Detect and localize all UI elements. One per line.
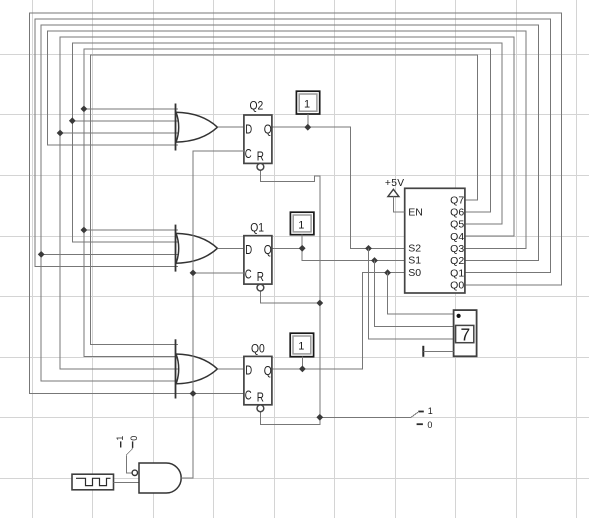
svg-text:D: D — [245, 364, 252, 378]
wire net Y4 feedback (decoder Q4 to OR gates) — [60, 37, 514, 369]
flip-flop Q0 — [244, 356, 272, 411]
wire CLK to AND gate input 2 — [114, 482, 140, 484]
OR gate G1 (4-input, drives Q1.D) — [176, 225, 218, 272]
wire reset chain from FF bubbles to switch S2btn — [260, 170, 411, 424]
junction P2/Q2.Q — [304, 124, 311, 131]
svg-text:Q0: Q0 — [450, 279, 464, 291]
wire net Y3 feedback (decoder Q3 to OR-G2 input 4) — [48, 31, 527, 249]
wire S1 branch to display input 3 — [375, 261, 454, 327]
junction reset/Q0 bubble — [316, 414, 323, 421]
wire net Y6 feedback (decoder Q6 to OR gates) — [84, 49, 490, 357]
junction S1/display branch — [371, 257, 378, 264]
junction clock/Q1.C — [190, 270, 197, 277]
svg-text:7: 7 — [461, 324, 471, 344]
svg-text:R: R — [257, 149, 264, 163]
junction Y5/G2 — [69, 117, 76, 124]
svg-text:+5V: +5V — [385, 178, 405, 189]
svg-text:EN: EN — [408, 206, 423, 218]
svg-text:Q5: Q5 — [450, 219, 464, 231]
wire net Y0 feedback (decoder Q0 to OR-G0 input 5 and FF Q0 clock row) — [30, 13, 562, 394]
wire net Y1 feedback (decoder Q1 to OR-G1 input 4) — [35, 19, 550, 273]
wire net Y2 feedback (decoder Q2 to OR gates) — [41, 25, 538, 381]
svg-text:Q0: Q0 — [251, 341, 265, 355]
wire net Y5 feedback (decoder Q5 to OR gates) — [72, 43, 502, 242]
wire G2 output to Q2.D — [217, 126, 244, 128]
svg-text:1: 1 — [428, 406, 433, 416]
power +5V supply — [385, 178, 405, 212]
wire Q1.Q to probe and S1 — [272, 248, 405, 260]
wire G1 output to Q1.D — [217, 247, 244, 249]
clock generator CLK — [72, 474, 114, 490]
switch S1btn (1/0, rotated) — [115, 436, 139, 473]
svg-text:1: 1 — [115, 436, 125, 441]
wire P0 to Q0.Q — [301, 357, 303, 369]
OR gate G0 (5-input, drives Q0.D) — [176, 339, 218, 398]
junction S0/display branch — [384, 269, 391, 276]
wire P2 to Q2.Q — [307, 114, 309, 127]
wire G0 output to Q0.D — [217, 368, 244, 370]
junction P1/Q1.Q — [299, 245, 306, 252]
junction S2/display branch — [365, 245, 372, 252]
svg-text:C: C — [245, 147, 252, 161]
probe P1 (value 1) — [290, 212, 314, 235]
svg-text:S0: S0 — [408, 267, 421, 279]
junction clock/Q0.C — [190, 390, 197, 397]
wire S2 branch to display input 2 — [369, 248, 454, 338]
svg-text:R: R — [257, 391, 264, 405]
svg-text:S2: S2 — [408, 243, 421, 255]
probe P2 (value 1) — [296, 91, 319, 114]
svg-text:C: C — [245, 268, 252, 282]
svg-text:D: D — [245, 243, 252, 257]
svg-text:Q3: Q3 — [450, 243, 464, 255]
junction Y6/G2 — [81, 106, 88, 113]
svg-text:Q2: Q2 — [450, 255, 464, 267]
wire Q0.Q to probe and S0 — [272, 273, 405, 369]
wire P1 to Q1.Q — [301, 235, 303, 249]
wire Q2.Q to probe and S2 — [272, 127, 405, 248]
svg-text:Q1: Q1 — [250, 221, 264, 235]
svg-text:Q: Q — [264, 122, 272, 136]
ground (constant low) at display input 4 — [423, 346, 453, 357]
flip-flop Q2 — [244, 115, 272, 170]
display U2 (hex, shows 7) — [454, 310, 477, 356]
svg-text:Q2: Q2 — [250, 99, 264, 113]
svg-text:C: C — [245, 388, 252, 402]
svg-text:Q: Q — [264, 243, 272, 257]
svg-text:S1: S1 — [408, 255, 421, 267]
wire net Y7 feedback (decoder Q7 to OR-G0 input 1) — [91, 55, 478, 345]
OR gate G2 (4-input, drives Q2.D) — [176, 104, 218, 151]
wire S0 branch to display input 1 — [388, 273, 454, 314]
AND gate A1 (clock enable, inverted input 1) — [132, 463, 181, 493]
svg-text:R: R — [257, 270, 264, 284]
svg-text:Q6: Q6 — [450, 207, 464, 219]
svg-text:1: 1 — [298, 341, 304, 353]
svg-text:0: 0 — [129, 436, 139, 441]
svg-text:1: 1 — [298, 220, 304, 232]
decoder U1 (3-to-8) — [405, 188, 465, 293]
svg-text:Q1: Q1 — [450, 267, 464, 279]
switch S2btn (1/0, reset control) — [411, 406, 433, 430]
flip-flop Q1 — [244, 236, 272, 291]
junction reset/Q1 bubble — [316, 300, 323, 307]
svg-text:Q: Q — [264, 364, 272, 378]
svg-text:D: D — [245, 122, 252, 136]
svg-text:Q7: Q7 — [450, 194, 464, 206]
junction Y6/G1 — [81, 227, 88, 234]
junction Y2/G1 — [38, 251, 45, 258]
svg-text:0: 0 — [427, 420, 432, 430]
svg-text:Q4: Q4 — [450, 231, 464, 243]
junction Y4/G2 — [57, 130, 64, 137]
junction P0/Q0.Q — [299, 366, 306, 373]
svg-text:1: 1 — [304, 99, 310, 111]
wire clock spine from A1 output to FF clock inputs — [181, 151, 244, 478]
probe P0 (value 1) — [290, 333, 313, 357]
